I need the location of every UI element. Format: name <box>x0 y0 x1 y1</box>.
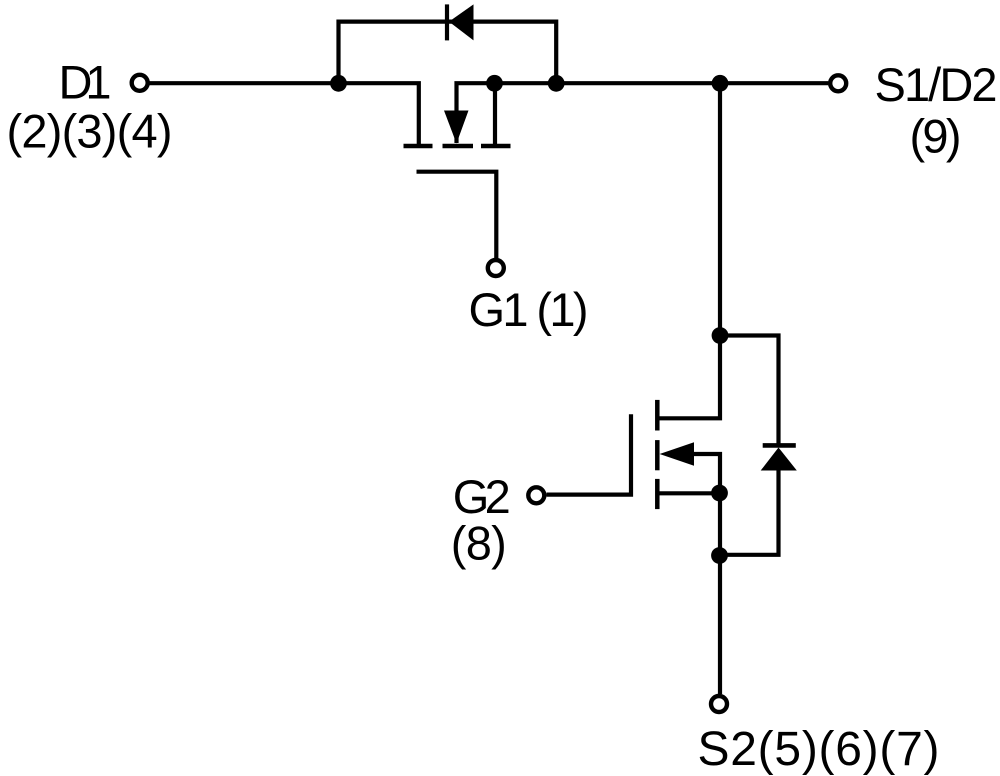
terminal S2 <box>711 696 727 712</box>
terminal D1 <box>132 75 148 91</box>
transistor Q1 drain channel bar <box>404 144 433 149</box>
node: junction at Q1 source lead <box>486 75 503 92</box>
svg-text:(2)(3)(4): (2)(3)(4) <box>7 105 173 158</box>
wire: diode D2 branch top run and down to cathode <box>720 336 779 446</box>
diode D2 cathode bar <box>763 443 796 448</box>
transistor Q1 source channel bar <box>481 144 511 149</box>
svg-text:G2: G2 <box>453 470 511 523</box>
diode D2 triangle (pointing up) <box>761 448 797 471</box>
svg-text:S1/D2: S1/D2 <box>875 58 998 111</box>
svg-text:(9): (9) <box>910 110 962 163</box>
svg-text:S2(5)(6)(7): S2(5)(6)(7) <box>698 723 940 776</box>
wire: diode D1 loop (left leg, top run, right leg) <box>339 22 557 84</box>
node: junction at Q2 diode branch top <box>712 327 729 344</box>
diode D1 triangle (pointing left) <box>449 4 474 40</box>
wire: vertical from S1/D2 node down to Q2 drain lead <box>657 83 720 418</box>
wire: diode D2 anode down and back to S2 node <box>720 470 779 555</box>
diode D1 cathode bar <box>445 4 449 40</box>
transistor Q1 body channel bar <box>443 144 474 149</box>
terminal S1/D2 <box>830 75 846 91</box>
transistor Q2 body arrow (pointing left) <box>660 442 694 465</box>
transistor Q1 body arrow (pointing down) <box>444 111 469 144</box>
wire: Q2 body lead to main vertical <box>694 454 720 493</box>
wire: main horizontal from Q1 body corner to S1/D2 terminal <box>457 83 829 143</box>
svg-text:(8): (8) <box>451 517 507 570</box>
transistor Q2 source channel bar <box>655 479 660 509</box>
node: junction at Q2 source/body tie <box>711 485 728 502</box>
svg-text:D1: D1 <box>59 56 112 109</box>
wire: D1 terminal to Q1 drain corner, down to drain bar <box>150 83 419 146</box>
wire: Q2 gate lead and gate bar <box>547 414 632 494</box>
transistor Q2 drain channel bar <box>655 400 660 431</box>
wire: vertical from Q2 source down to S2 terminal <box>718 493 722 694</box>
node: junction on main wire at diode left leg <box>330 75 347 92</box>
wire: Q1 source lead up to main wire <box>493 83 497 146</box>
node: junction at Q2 diode branch bottom <box>711 547 728 564</box>
transistor Q2 body channel bar <box>655 440 660 470</box>
terminal G2 <box>528 487 544 503</box>
svg-text:G1 (1): G1 (1) <box>469 283 589 336</box>
wire: Q2 source lead <box>657 491 720 495</box>
terminal G1 <box>488 260 504 276</box>
node: junction at S1/D2 branch down <box>712 75 729 92</box>
node: junction at diode right leg <box>548 75 565 92</box>
wire: Q1 gate bar and lead down to G1 terminal <box>417 172 497 258</box>
